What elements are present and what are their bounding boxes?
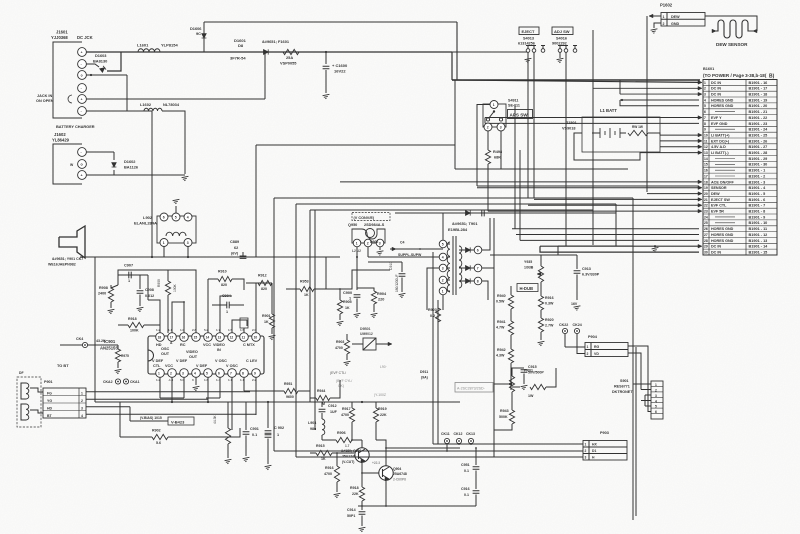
connector J1601 pin 1 [78,48,87,57]
svg-text:B1901 - 27: B1901 - 27 [749,145,768,149]
svg-text:B1901 - 25: B1901 - 25 [749,133,768,137]
wire y262 stub [368,261,402,263]
wire osc line [148,300,160,333]
arrowhead P1602 [649,14,653,18]
ground C913 [574,306,582,311]
wire ck11 dn [446,444,448,451]
svg-text:-: - [81,109,82,113]
svg-text:L902: L902 [143,215,153,220]
svg-text:4700: 4700 [341,413,349,417]
ground C902 [265,465,273,470]
inductor L1601 [138,49,160,52]
svg-text:V DEF: V DEF [176,359,188,363]
svg-text:10: 10 [704,133,708,137]
wire r910 out [232,279,244,290]
wire ck22 dn [564,334,566,347]
wire q904 right [386,447,460,449]
wire r902 l [120,436,152,438]
resistor R918 [359,487,364,501]
svg-text:OUT: OUT [161,352,170,356]
capacitor C915 [521,370,528,372]
wire q903 top [361,440,363,448]
wire sig row23 [488,210,699,212]
wire r902 r [168,428,240,437]
wire Q950 p3 gnd [379,247,381,250]
junction q904 top [385,447,387,449]
L902 coil [166,232,186,236]
wire pin6 down [86,111,152,257]
APS pin3 [497,123,505,131]
svg-text:1: 1 [655,383,657,387]
wire c908 up [139,275,141,289]
wire c908 dn [139,295,141,307]
svg-text:B1901 - 1: B1901 - 1 [749,169,766,173]
APS lever [489,112,494,119]
wire p8 dn [243,377,245,391]
svg-text:R917: R917 [342,407,351,411]
IC901 pin 14 [204,333,213,342]
svg-text:EVF 5R: EVF 5R [711,210,724,214]
svg-text:R918: R918 [128,317,137,321]
wire frame y246 [558,245,633,247]
svg-text:C910: C910 [389,262,393,270]
svg-text:28: 28 [704,239,708,243]
svg-text:1: 1 [163,241,165,245]
svg-text:HX: HX [592,443,597,447]
svg-text:4: 4 [442,256,444,260]
wire batt row10 [660,134,699,136]
connector P904 body [585,343,628,357]
svg-text:B1901 - 12: B1901 - 12 [749,233,768,237]
wire C1600 down [325,70,327,93]
svg-text:VCC: VCC [203,343,211,347]
svg-text:S4013: S4013 [523,37,534,41]
svg-text:B1901 - 15: B1901 - 15 [749,250,768,254]
svg-text:DKTRONET: DKTRONET [612,390,633,394]
svg-text:7: 7 [230,372,232,376]
wire x438 vert [437,300,439,444]
wire Q950 p2 down [367,247,369,257]
svg-text:9: 9 [704,128,706,132]
wire r901 dn [271,328,273,334]
svg-text:4: 4 [655,399,657,403]
junction y506 [361,505,363,507]
svg-text:1: 1 [493,103,495,107]
IC901 pin 15 [192,333,201,342]
svg-text:HORES GND: HORES GND [711,98,734,102]
wire right pins bus [482,218,490,250]
IC901 pin 5 [204,369,213,378]
svg-text:P901: P901 [44,380,53,384]
capacitor C901 [243,432,250,434]
svg-text:R909: R909 [157,279,161,287]
resistor R920 [538,318,543,332]
wire y270 left [118,270,168,275]
capacitor C912 [319,409,326,411]
wire c907 left dn [117,275,119,285]
svg-text:HD: HD [47,406,53,410]
svg-text:23: 23 [704,210,708,214]
wire s901 in1 [633,383,651,385]
svg-text:9002292: 9002292 [552,42,567,46]
svg-text:D9B01: D9B01 [360,327,371,331]
junction pin3 [90,74,92,76]
resistor R916b [538,296,543,310]
wire d951 r [376,343,390,345]
wire q904 base [362,472,379,474]
svg-text:B1901 - 29: B1901 - 29 [749,157,768,161]
wire p901 r1 [86,391,250,393]
wire p7 dn [231,377,233,430]
wire DC IN into row 3 [620,93,699,95]
wire batt out1 [648,133,660,135]
resistor R905 [337,300,342,314]
wire p904 in1 [565,346,585,348]
wire T901 p3 left [427,268,439,310]
wire hd line [147,275,149,300]
svg-text:LI BATT(+): LI BATT(+) [711,133,730,137]
wire P1602 pin1 left [649,15,661,17]
transistor Q950 body [352,229,385,243]
IC901 pin 2 [168,369,177,378]
arrow row 11 [698,139,702,143]
wire sig row18 [340,181,699,183]
T901 diode 6 [466,247,471,252]
svg-text:0.012: 0.012 [145,294,154,298]
svg-text:1: 1 [356,242,358,246]
wire sig to frame [340,270,390,289]
svg-text:1: 1 [587,345,589,349]
T901 left pin 4 stub [447,256,450,258]
wire P1602 right [705,16,757,31]
wire DC IN bus right [452,79,700,81]
svg-text:1: 1 [277,433,279,437]
wire x433 vert [432,252,434,444]
resistor R903b [344,340,349,354]
svg-text:C904: C904 [222,294,232,298]
resistor R916 [334,466,339,482]
svg-text:CK12: CK12 [454,432,463,436]
svg-text:SUPPL-SUPW: SUPPL-SUPW [398,253,422,257]
wire pin5 long [86,98,265,100]
wire p901 r4 [86,413,256,415]
T901 right pin 6 stub [459,249,465,251]
L902 top pin 6 [160,213,168,221]
IC901 pin 11 [240,333,249,342]
svg-text:(6V): (6V) [231,252,239,256]
ground C901 [243,457,251,462]
connector J1602 body [53,144,82,184]
svg-text:R920: R920 [545,318,554,322]
svg-text:4.3W: 4.3W [496,354,505,358]
wire gnd row27 [516,234,699,236]
wire EJECT gnd stub [527,52,529,58]
svg-text:R951: R951 [284,382,292,386]
wire r909 dn [167,295,169,333]
wire c912 dn [321,413,323,419]
svg-text:JACK IN: JACK IN [37,94,52,98]
svg-text:ON OPEN: ON OPEN [36,99,54,103]
svg-text:GND: GND [671,22,680,26]
svg-text:5: 5 [704,104,706,108]
connector J1601 body [53,42,82,118]
wire c913 up [576,255,578,269]
svg-text:18: 18 [158,336,162,340]
switch S911 APS body [483,104,506,127]
connector J1601 pin 4 [78,84,87,93]
resistor R912 [258,280,272,285]
svg-text:DF: DF [19,371,24,375]
svg-text:B1901 - 9: B1901 - 9 [749,215,766,219]
svg-text:5: 5 [442,243,444,247]
svg-text:D1602: D1602 [124,159,136,164]
svg-text:DC IN: DC IN [711,245,721,249]
wire L902 p1 down [163,247,165,258]
wire c951-916 [475,471,477,490]
svg-text:6: 6 [704,110,706,114]
svg-text:1: 1 [128,279,130,283]
svg-text:2.7W: 2.7W [545,324,554,328]
svg-text:15: 15 [194,336,198,340]
svg-text:B1901 - 21: B1901 - 21 [749,110,768,114]
svg-text:OSC: OSC [161,347,169,351]
svg-text:C916: C916 [461,487,470,491]
wire frame x636 [635,347,637,516]
junction ck11 [446,450,448,452]
wire y270 long [325,257,327,270]
junction r905 [339,288,341,290]
resistor R943 [509,410,514,424]
wire APS pin2 down2 [487,164,489,211]
wire frame y210 [310,209,593,211]
wire r908 up [111,285,118,288]
wire APS pin2 down [487,131,489,150]
svg-text:16V22: 16V22 [334,69,346,74]
wire r940-41 [510,309,512,321]
wire r901 up [271,283,273,314]
svg-text:IC901: IC901 [104,339,116,344]
arrow srow 20 [698,192,702,196]
junction spk [151,256,153,258]
T901 right pin 6 [474,246,482,254]
svg-text:DC IN: DC IN [711,81,721,85]
svg-text:1K: 1K [321,457,326,461]
svg-text:0.1: 0.1 [464,493,469,497]
svg-text:21: 21 [704,198,708,202]
wire frame y145 [256,144,455,146]
svg-text:9600: 9600 [286,395,294,399]
arrow d902 [392,247,396,251]
svg-text:C LEV: C LEV [246,359,258,363]
wire s901 steps [640,362,642,390]
wire r918 dn [361,501,363,506]
wire x620 vert [619,80,621,94]
svg-text:2: 2 [367,242,369,246]
wire DC IN into row 2 [593,87,699,89]
wire gnd row26 [512,228,699,230]
switch S901 EJECT label box [519,27,539,35]
capacitor C908 [137,291,144,293]
wire r907 dn [227,444,229,458]
wire L902 p3 down [187,247,189,258]
svg-text:0.1: 0.1 [252,433,257,437]
svg-text:1: 1 [704,81,706,85]
IC901 body [148,336,264,374]
wire x528 down [527,52,529,198]
svg-text:2: 2 [81,399,83,403]
wire r906 out [352,439,362,441]
svg-text:B1901 - 13: B1901 - 13 [749,239,768,243]
svg-text:1: 1 [226,310,228,314]
wire evf gnd row8 [485,122,699,124]
Q950 outline box [352,213,390,221]
svg-text:R941: R941 [497,320,506,324]
wire r918b right [144,325,160,333]
wire ck4 to ic [88,344,118,346]
svg-text:3F7R-54: 3F7R-54 [230,56,246,61]
svg-text:o: o [81,73,83,77]
wire pin5 up [264,52,266,99]
svg-text:DEW SENSOR: DEW SENSOR [716,42,748,47]
wire EJECT signal down [533,52,535,198]
diode D1606 [202,34,207,38]
P901 coil A [26,383,29,399]
capacitor C916 [473,491,480,493]
wire p901 r2 [86,398,208,400]
svg-text:(BYF CYL/: (BYF CYL/ [336,379,352,383]
connector table B1601 TO POWER [703,80,777,256]
wire C1600 up [325,52,327,64]
resistor R907 [225,428,230,444]
wire r905 up [339,289,341,300]
wire r919 up [375,402,377,408]
svg-text:BA8130: BA8130 [93,59,107,64]
svg-text:4700: 4700 [324,472,332,476]
capacitor C911 [482,210,484,217]
resistor R951 [284,388,298,393]
capacitor C913 [574,271,581,273]
svg-text:2: 2 [170,372,172,376]
RV901 arrow [508,382,512,386]
svg-text:(V-CUT): (V-CUT) [342,460,354,464]
svg-text:D911: D911 [420,370,428,374]
IC901 notch [148,350,154,361]
svg-text:4: 4 [704,98,706,102]
wire p9 dn [255,377,257,415]
svg-text:26: 26 [704,227,708,231]
wire r909 up [167,270,169,281]
wire batt row13 [660,152,699,154]
svg-text:CKA1: CKA1 [130,380,140,384]
svg-text:1/93B: 1/93B [524,266,534,270]
svg-text:R910: R910 [218,270,227,274]
ground ADJ [557,58,565,63]
resistor R910 [218,276,232,281]
wire p904 out2 [628,353,641,362]
L902 top pin 4 [184,213,192,221]
ground C1600 [323,94,331,99]
svg-text:R915: R915 [316,444,325,448]
T901 right pin 8 stub [459,280,465,282]
svg-text:22K: 22K [380,413,387,417]
svg-text:R901: R901 [262,314,271,318]
svg-text:13: 13 [704,151,708,155]
svg-text:2: 2 [585,449,587,453]
svg-text:DC IN: DC IN [711,250,721,254]
wire p6 dn [219,377,221,398]
arrow row 1 [698,81,702,85]
svg-text:R902: R902 [152,429,161,433]
diode D1601 [264,49,269,54]
svg-text:VCC: VCC [165,364,173,368]
svg-text:YL86429: YL86429 [52,138,70,143]
wire q904 top [376,440,386,466]
wire r953-r905 [326,288,340,290]
resistor R944 [316,395,330,400]
wire c902 dn [267,439,269,465]
switch ADJ contacts [558,49,562,53]
wire d951 l [352,343,363,345]
wire pin3 stub [86,74,127,76]
svg-text:EVF CTL: EVF CTL [711,204,727,208]
arrow srow 19 [698,186,702,190]
wire frame y204 [296,203,616,205]
svg-text:1: 1 [663,15,665,19]
connector P903 body [583,441,627,461]
svg-text:SE-111: SE-111 [508,104,520,108]
svg-text:C MTX: C MTX [243,343,255,347]
svg-text:B1901 - 22: B1901 - 22 [749,116,768,120]
svg-text:E19BL284: E19BL284 [448,227,468,232]
wire rail2 to P903 [274,450,583,452]
ground p4 [193,386,201,391]
svg-text:0.3W: 0.3W [545,302,554,306]
IC901 pin 4 [192,369,201,378]
APS pin2 [484,123,492,131]
svg-text:B1901 - 4: B1901 - 4 [749,186,767,190]
wire L1602 line [127,110,144,112]
svg-text:3: 3 [379,242,381,246]
P901 coil wires [21,383,26,399]
svg-text:2: 2 [704,87,706,91]
ground R904 [371,313,379,318]
P901 coil B [26,404,29,420]
wire p901 coil link1 [30,388,43,392]
wire ck13 dn [470,444,472,445]
ground C910 [399,293,407,298]
wire D1603 out [107,52,121,71]
svg-text:16: 16 [704,169,708,173]
svg-text:CK11: CK11 [441,432,450,436]
wire ck4 line [60,344,82,346]
wire c913 dn [576,275,578,301]
IC901 pin 9 [252,369,261,378]
svg-text:D1: D1 [592,449,596,453]
svg-text:HORES GND: HORES GND [711,233,734,237]
wire c902 up [267,402,269,428]
wire dcin row29 [540,245,699,247]
connector J1601 pin 2 [78,60,87,69]
capacitor C914 [359,512,366,514]
wire R904 branch [357,288,374,291]
svg-text:3: 3 [81,406,83,410]
svg-text:8: 8 [704,122,706,126]
svg-text:B1901 - 6: B1901 - 6 [749,198,766,202]
svg-text:L1601: L1601 [137,43,149,48]
svg-text:EVF GND: EVF GND [711,122,728,126]
T901 left pin 5 stub [447,243,450,245]
svg-text:1: 1 [442,290,444,294]
